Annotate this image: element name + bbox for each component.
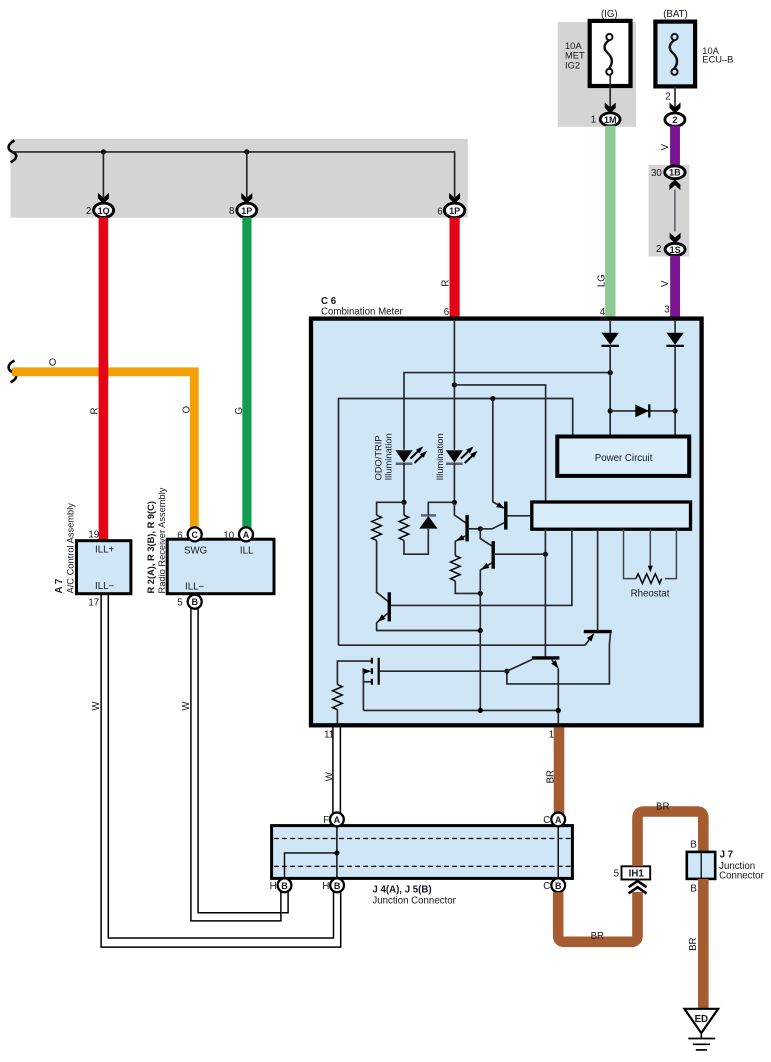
svg-text:IH1: IH1 xyxy=(629,869,645,880)
svg-text:O: O xyxy=(49,358,57,369)
wire pin3 vertical inside meter xyxy=(674,321,676,333)
gray harness bus band (top left) xyxy=(11,139,468,218)
Q2 collector wire to node C xyxy=(480,522,505,529)
svg-text:B: B xyxy=(690,840,696,851)
svg-text:C 6: C 6 xyxy=(321,296,337,307)
connector oval 1M xyxy=(600,113,620,126)
svg-text:A: A xyxy=(334,815,341,825)
svg-text:(BAT): (BAT) xyxy=(663,9,688,20)
T1 emitter arrow (into bar) xyxy=(586,634,594,645)
gray background box of connectors 1B/1S xyxy=(649,165,690,257)
node Q_B emitter on y398.5 xyxy=(490,396,495,401)
wire node B down to transistor Q1 collector xyxy=(454,502,466,523)
svg-text:J 4(A), J 5(B): J 4(A), J 5(B) xyxy=(372,885,431,896)
node diode bridge right xyxy=(673,408,678,413)
arrow into 1P (pin 8) xyxy=(241,193,252,204)
svg-text:F: F xyxy=(323,815,329,826)
wire LG (light green) 1M to meter pin 4 xyxy=(605,126,615,320)
wire R4 bottom to meter edge pin 11 xyxy=(336,710,338,724)
svg-text:1: 1 xyxy=(591,115,596,126)
diode pointing right between pin4 and pin3 nets xyxy=(635,405,649,418)
inner wire C(A) to C(B) xyxy=(557,826,559,885)
wire O (orange) horizontal then down to radio SWG xyxy=(12,372,194,529)
wire Q4 base rail y605.4 xyxy=(390,529,572,605)
svg-text:V: V xyxy=(660,143,671,150)
resistor R2 xyxy=(399,515,409,540)
fuse ECU-B element xyxy=(670,34,678,75)
arrow into oval 2 xyxy=(670,103,681,114)
ground stem and bars xyxy=(700,1033,702,1038)
svg-text:W: W xyxy=(91,701,102,711)
svg-text:10A: 10A xyxy=(565,41,582,51)
svg-text:B: B xyxy=(555,881,562,891)
J7 divider line xyxy=(700,853,702,877)
wire zener cathode up to node B xyxy=(428,502,454,515)
connector oval 1B xyxy=(665,166,685,179)
wire R2 bottom to zener anode xyxy=(404,529,428,554)
svg-text:1B: 1B xyxy=(669,168,681,178)
wire BR from J7 down to ground ED xyxy=(698,879,709,1009)
wire diode bridge horizontal xyxy=(610,410,675,412)
rheostat right lead xyxy=(665,529,677,578)
fuse 10A MET IG2 box xyxy=(590,21,631,86)
svg-text:2: 2 xyxy=(665,91,670,102)
diode under meter pin 4 xyxy=(602,333,619,346)
wire W pair meter pin11 to junction F(A) xyxy=(332,727,334,812)
node G (MOSFET drain / T2 base) xyxy=(504,669,509,674)
Q2 base wire to long box xyxy=(507,515,532,517)
node on pin4 line y372.6 xyxy=(608,370,613,375)
svg-text:MET: MET xyxy=(565,51,585,61)
svg-text:5: 5 xyxy=(177,598,182,609)
svg-text:ILL: ILL xyxy=(240,546,254,557)
transistor Q4 bar xyxy=(388,592,391,621)
svg-text:6: 6 xyxy=(177,530,182,541)
svg-text:10: 10 xyxy=(223,530,234,541)
svg-text:ECU–B: ECU–B xyxy=(702,54,733,64)
svg-text:Illumination: Illumination xyxy=(383,433,393,480)
arrow into 1Q xyxy=(98,193,109,204)
Q2 emitter from y398.5 node with arrow into bar xyxy=(493,399,504,508)
svg-text:B: B xyxy=(281,881,288,891)
dashed line upper inside J4/J5 xyxy=(274,838,571,840)
svg-text:1M: 1M xyxy=(604,115,617,125)
wire from pin6 node to long box top xyxy=(454,385,545,502)
Q4 emitter with arrow to y630.5 rail xyxy=(377,613,481,631)
connector oval 1P pin6 xyxy=(444,203,464,218)
fuse 10A ECU-B box xyxy=(655,22,695,87)
svg-text:A: A xyxy=(555,815,562,825)
wire pin6 vertical inside meter xyxy=(453,321,455,450)
svg-text:1P: 1P xyxy=(449,206,460,216)
connector oval 1Q xyxy=(94,203,114,217)
arrow into 1M xyxy=(605,103,616,114)
Q3 emitter with arrow down to vertical rail xyxy=(480,563,492,711)
Q1 base wire to node C xyxy=(468,528,480,530)
connector oval 2 xyxy=(665,113,685,126)
junction connector J4/J5 box xyxy=(272,826,573,879)
transistor T1 (PNP lower right) bar xyxy=(584,630,612,633)
rheostat wiper lead with arrow xyxy=(649,529,651,566)
arrow down into 1S xyxy=(670,233,681,244)
gray background box of fuse MET IG2 xyxy=(558,22,636,127)
svg-text:1Q: 1Q xyxy=(98,206,110,216)
resistor R3 (Q1 emitter) xyxy=(451,556,461,581)
wire horizontal y372.6 to pin4 node xyxy=(404,373,610,450)
LED ODO/TRIP illumination xyxy=(395,444,429,463)
svg-text:17: 17 xyxy=(88,598,99,609)
bus break squiggle (gray band left) xyxy=(9,141,17,163)
svg-text:ILL−: ILL− xyxy=(95,581,114,592)
wire node C down to Q3 base xyxy=(480,529,492,547)
svg-text:G: G xyxy=(234,407,245,415)
svg-text:1S: 1S xyxy=(670,245,681,255)
svg-text:ILL−: ILL− xyxy=(185,582,204,593)
wire V (purple) 1S to meter pin 3 xyxy=(670,256,680,320)
svg-text:Combination Meter: Combination Meter xyxy=(321,306,404,317)
connector circle C (radio SWG) xyxy=(188,527,202,541)
wire pin4 vertical inside meter xyxy=(609,321,611,333)
svg-text:B: B xyxy=(690,884,696,895)
connector circle B (radio ILL-) xyxy=(188,595,202,609)
svg-text:B: B xyxy=(334,881,341,891)
svg-text:SWG: SWG xyxy=(184,546,207,557)
wire R3 bottom to node D xyxy=(455,581,480,594)
svg-text:C: C xyxy=(543,815,550,826)
wire BR (brown) meter pin1 to junction C(A) xyxy=(554,727,565,813)
svg-text:6: 6 xyxy=(437,206,442,217)
MOSFET gate wire from pin11 resistor xyxy=(337,661,371,684)
resistor R1 xyxy=(372,515,382,540)
svg-text:19: 19 xyxy=(88,530,99,541)
connector IH1 box xyxy=(622,866,651,879)
svg-text:2: 2 xyxy=(86,206,91,217)
svg-text:H: H xyxy=(322,881,329,892)
wire pin1 rail vertical xyxy=(557,668,559,723)
node diode bridge left xyxy=(608,408,613,413)
connector oval 1S xyxy=(665,243,685,255)
arrow into 1P (pin 6) xyxy=(449,193,460,204)
transistor Q3 bar xyxy=(492,541,495,569)
svg-text:BR: BR xyxy=(688,937,699,950)
A/C control assembly box A7 xyxy=(77,541,131,594)
wire horizontal y398.5 left vertical to power circuit top xyxy=(339,399,573,646)
svg-text:Power Circuit: Power Circuit xyxy=(595,453,653,464)
svg-text:A/C Control Assembly: A/C Control Assembly xyxy=(65,503,75,594)
wire R (red) from 1Q to A/C pin 19 xyxy=(99,217,109,541)
MOSFET source with body arrow xyxy=(363,670,366,672)
wire W pair from A/C pin17 down-right to junction H(B) xyxy=(101,594,341,947)
ground ED triangle xyxy=(684,1009,718,1033)
Q3 collector wire to node E xyxy=(494,553,545,555)
svg-text:5: 5 xyxy=(614,869,619,880)
svg-text:Connector: Connector xyxy=(719,871,764,882)
svg-text:O: O xyxy=(182,406,193,414)
svg-text:W: W xyxy=(324,771,335,781)
IH1 mating arrows xyxy=(629,881,647,893)
MOSFET Q5 gate plates xyxy=(371,658,373,685)
wire LED2 cathode down to node B xyxy=(453,463,455,502)
svg-text:3: 3 xyxy=(664,304,669,315)
svg-text:W: W xyxy=(181,701,192,711)
svg-text:ODO/TRIP: ODO/TRIP xyxy=(374,435,384,480)
T2 emitter with arrow to pin1 rail xyxy=(552,660,558,668)
node junction at 1Q tap xyxy=(101,149,106,154)
T1 collector wire from long box xyxy=(597,529,599,631)
dashed line lower inside J4/J5 xyxy=(274,865,571,867)
power circuit box xyxy=(557,437,689,476)
wire V (purple) oval2 to 1B xyxy=(670,126,680,167)
wire node A left to resistor R1 xyxy=(377,502,404,515)
svg-text:IG2: IG2 xyxy=(565,60,580,70)
T1 right lead down-left loop to node G xyxy=(507,633,611,684)
arrow up into 1B xyxy=(669,179,680,190)
wire BR from C(B) to IH1 xyxy=(558,892,637,942)
svg-text:1P: 1P xyxy=(241,206,252,216)
wire between 1B and 1S xyxy=(674,190,676,232)
svg-text:ED: ED xyxy=(695,1014,708,1025)
svg-text:C: C xyxy=(191,530,198,540)
svg-text:6: 6 xyxy=(444,307,449,318)
T2 base diagonal from node G xyxy=(507,659,532,671)
svg-text:Junction Connector: Junction Connector xyxy=(372,896,456,907)
node F on emitter rail xyxy=(478,628,483,633)
orange wire break squiggle xyxy=(9,361,17,383)
connector oval 1P pin8 xyxy=(237,203,257,217)
fuse MET IG2 element xyxy=(605,34,613,75)
MOSFET Q5 channel bar xyxy=(378,658,380,685)
wire node A down to resistor R2 xyxy=(403,502,405,515)
svg-text:J 7: J 7 xyxy=(720,850,733,861)
rheostat resistor element xyxy=(636,574,662,584)
wire R overlay at orange crossing xyxy=(99,364,109,380)
node A (LED1 bottom) xyxy=(401,500,406,505)
svg-text:30: 30 xyxy=(651,168,662,179)
wire W pair from radio pin5 down-right to junction H(B) xyxy=(191,608,281,921)
wire LED1 cathode down to node A xyxy=(403,463,405,502)
svg-text:A 7: A 7 xyxy=(54,579,65,594)
svg-text:R: R xyxy=(441,280,452,287)
bottom bus wire y710.4 xyxy=(363,709,558,711)
wire from fuse ECU-B to oval 2 xyxy=(674,86,676,107)
radio receiver assembly box xyxy=(167,539,274,594)
svg-text:A: A xyxy=(243,530,250,540)
wire tap down to 1P xyxy=(246,152,248,197)
MOSFET bottom stub xyxy=(363,681,371,683)
long driver box (unlabeled) xyxy=(532,502,691,529)
svg-text:Rheostat: Rheostat xyxy=(631,589,670,600)
wire from fuse MET IG2 to connector 1M xyxy=(609,74,611,107)
wire R (red) from 1P pin6 to meter pin 6 xyxy=(450,218,460,320)
transistor T2 bar xyxy=(532,656,560,659)
wire long box to node E and T2 collector xyxy=(544,529,546,657)
zener diode (filled, pointing up) xyxy=(419,516,437,529)
svg-text:Radio Receiver Assembly: Radio Receiver Assembly xyxy=(157,487,167,593)
svg-text:BR: BR xyxy=(545,770,556,783)
wire tap down to 1Q xyxy=(102,152,104,197)
svg-text:BR: BR xyxy=(656,801,669,812)
svg-text:2: 2 xyxy=(656,244,661,255)
svg-text:C: C xyxy=(543,881,550,892)
MOSFET drain wire to node G xyxy=(380,670,507,672)
connector circle A (radio ILL) xyxy=(239,527,253,541)
svg-text:2: 2 xyxy=(672,115,677,125)
svg-text:V: V xyxy=(660,280,671,287)
junction connector J7 box xyxy=(687,852,715,879)
diode under meter pin 3 xyxy=(666,333,683,346)
node D xyxy=(478,591,483,596)
svg-text:B: B xyxy=(191,597,198,607)
wire G (green) from 1P to radio pin 10 xyxy=(242,217,251,528)
svg-text:R: R xyxy=(89,408,100,415)
LED illumination xyxy=(446,444,480,463)
svg-text:BR: BR xyxy=(591,931,604,942)
node bus left xyxy=(478,708,483,713)
node bus right (pin1 rail) xyxy=(556,708,561,713)
bus wire horizontal in gray band xyxy=(12,152,455,197)
svg-text:R 2(A), R 3(B), R 9(C): R 2(A), R 3(B), R 9(C) xyxy=(146,501,156,593)
svg-text:8: 8 xyxy=(229,206,234,217)
combination meter C6 box xyxy=(311,319,702,726)
svg-text:4: 4 xyxy=(600,307,606,318)
svg-text:Illumination: Illumination xyxy=(435,433,445,480)
node on pin6 line y384.9 xyxy=(452,382,457,387)
node C (Q1 base / Q2 collector / Q3 base) xyxy=(478,526,483,531)
svg-text:H: H xyxy=(270,881,277,892)
rheostat left lead xyxy=(624,529,636,578)
wire left rail y645.2 to T1 emitter xyxy=(339,644,587,646)
transistor Q1 bar xyxy=(465,515,468,542)
node inside J4/J5 xyxy=(334,850,339,855)
svg-text:(IG): (IG) xyxy=(601,9,618,20)
svg-text:ILL+: ILL+ xyxy=(95,545,114,556)
svg-text:1: 1 xyxy=(549,730,554,741)
inner wire F(A) to H(B)s xyxy=(336,826,338,885)
resistor R4 (pin 11) xyxy=(333,685,343,710)
wire R1 bottom to transistor Q4 collector xyxy=(377,540,389,601)
Q1 emitter with arrow xyxy=(455,536,466,556)
wire BR from IH1 top over to J7 xyxy=(638,812,704,867)
node B (LED2 bottom) xyxy=(452,500,457,505)
node E xyxy=(543,552,548,557)
transistor Q2 (PNP upper) bar xyxy=(504,502,507,530)
svg-text:LG: LG xyxy=(596,274,607,287)
node junction at 1P tap xyxy=(244,149,249,154)
